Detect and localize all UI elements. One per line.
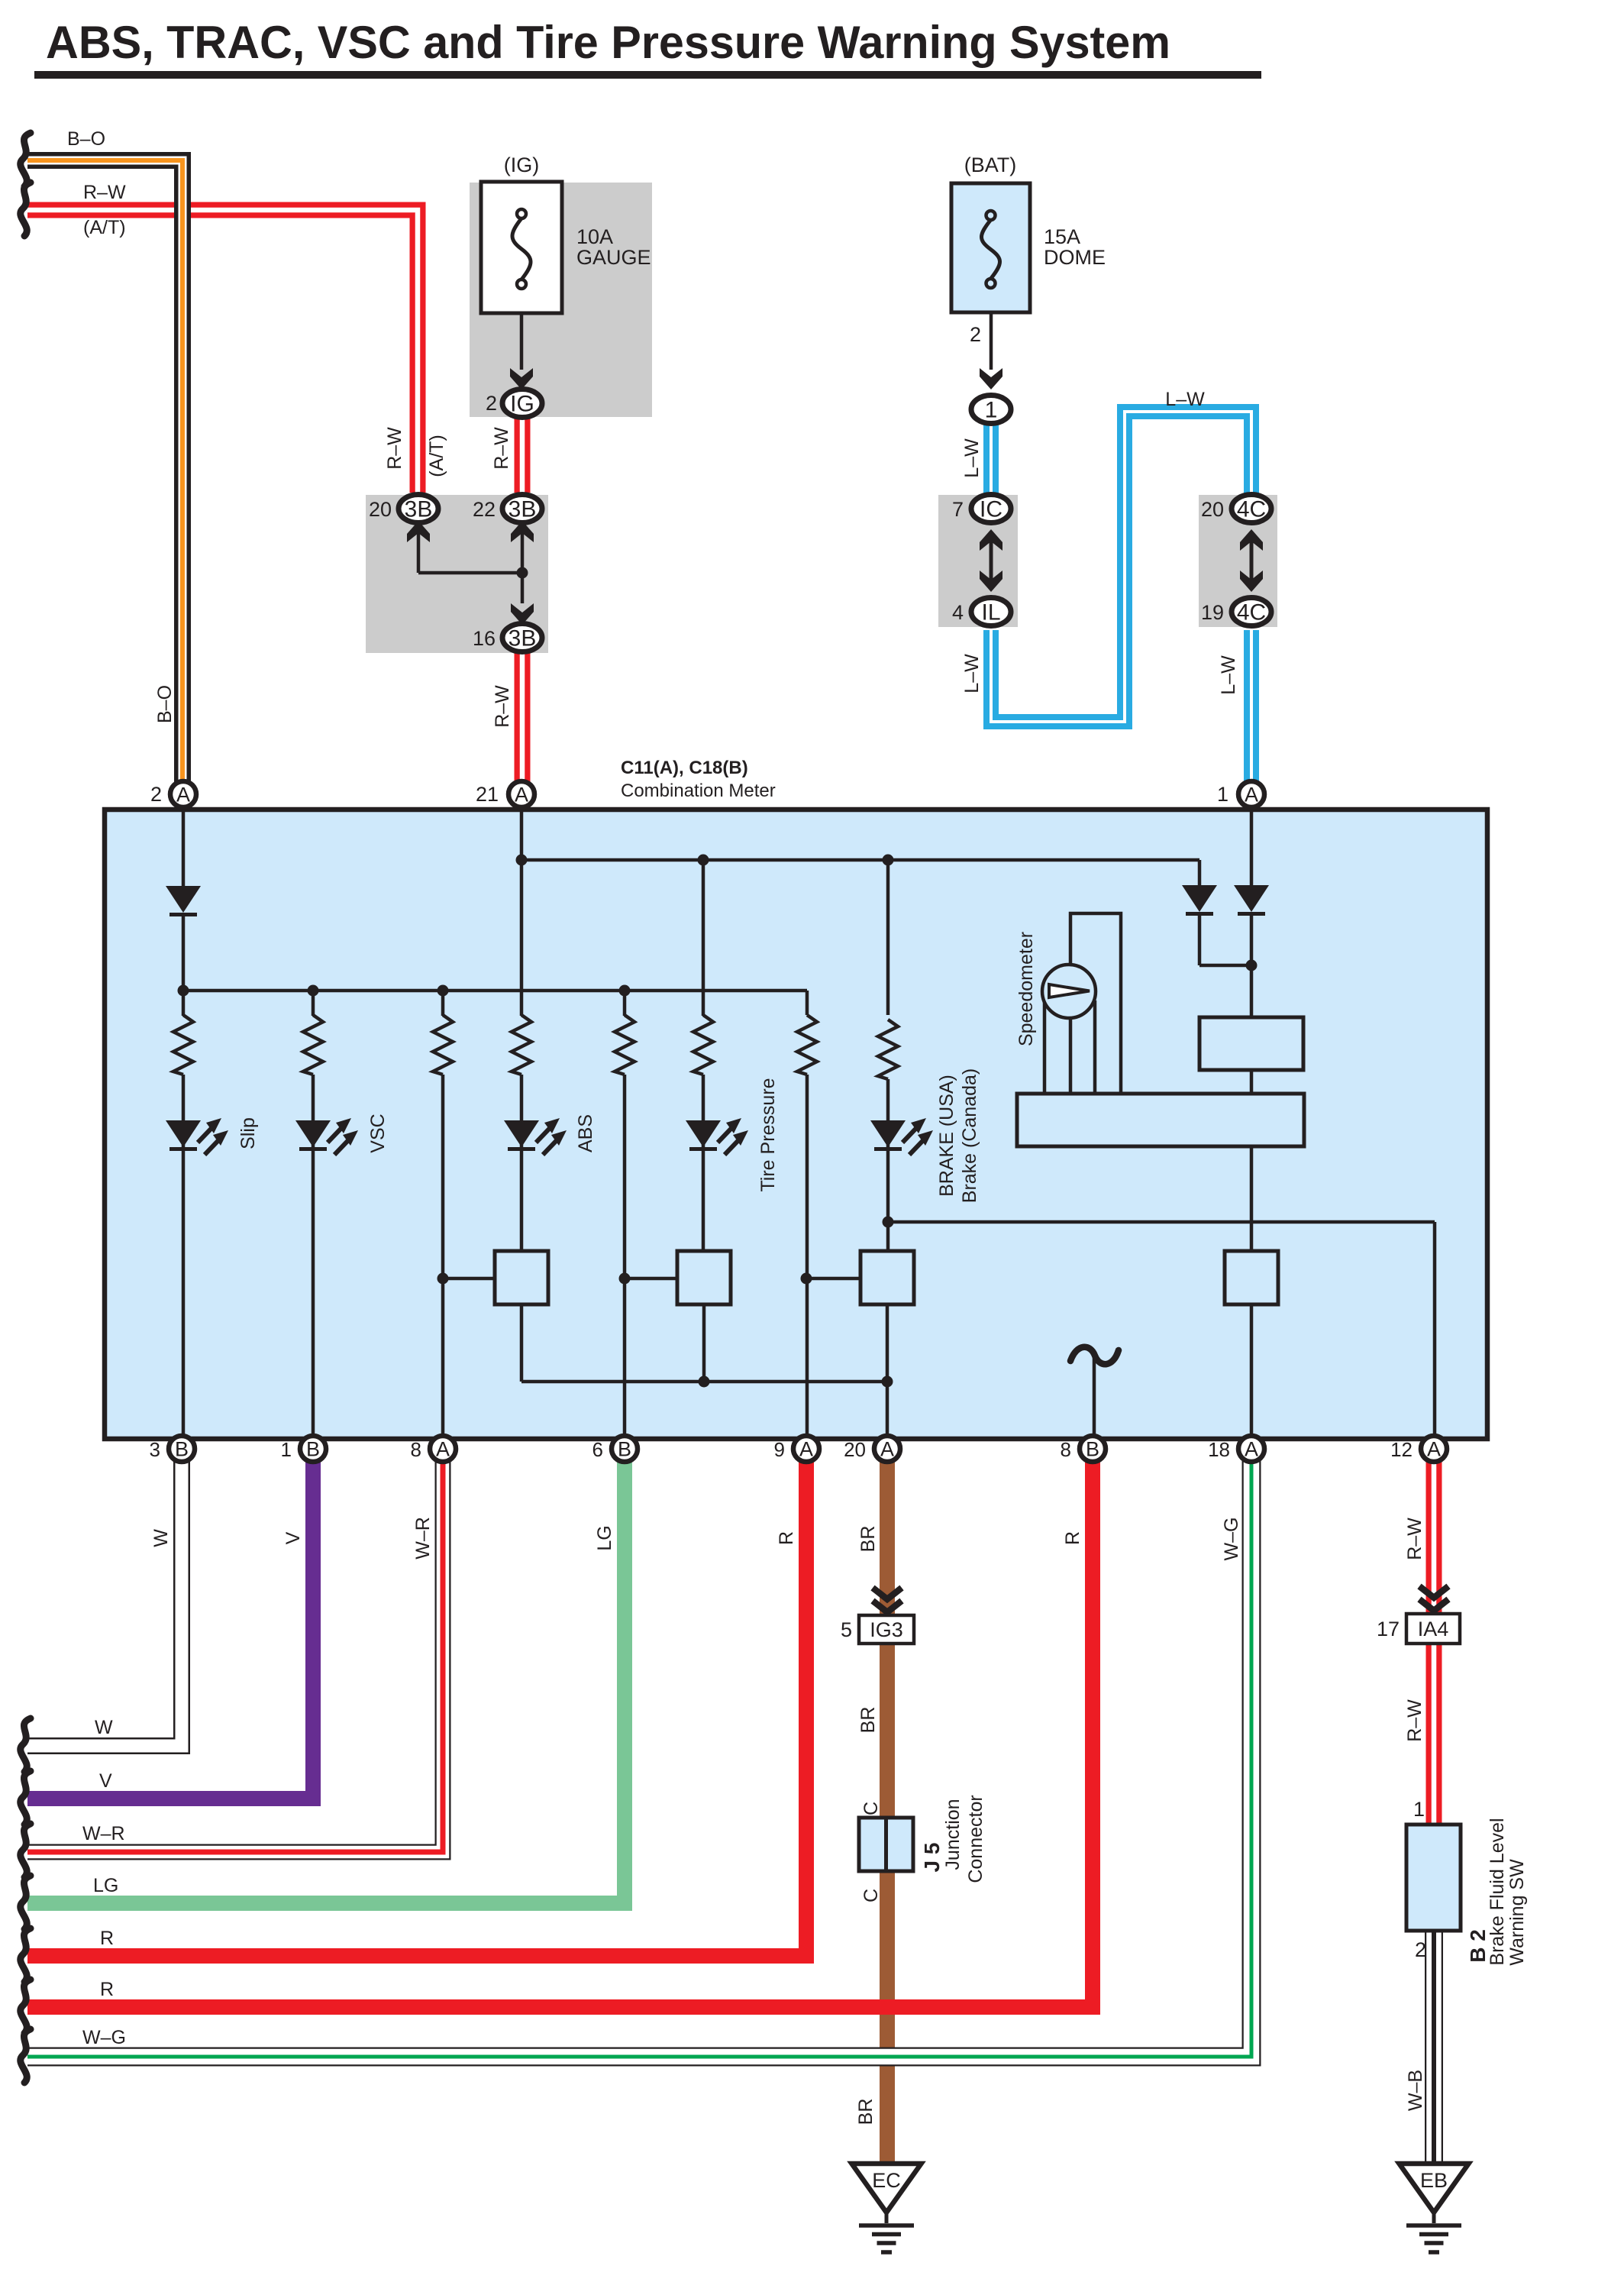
svg-text:Combination Meter: Combination Meter (621, 781, 776, 801)
svg-text:B: B (306, 1438, 320, 1461)
svg-text:J 5: J 5 (920, 1843, 944, 1873)
svg-text:BR: BR (857, 1526, 879, 1553)
svg-text:Brake Fluid Level: Brake Fluid Level (1487, 1818, 1508, 1965)
svg-text:ABS: ABS (575, 1114, 596, 1152)
svg-text:Slip: Slip (237, 1117, 259, 1149)
svg-text:R–W: R–W (1404, 1699, 1425, 1742)
svg-text:B: B (175, 1438, 189, 1461)
svg-text:BRAKE (USA): BRAKE (USA) (936, 1075, 957, 1197)
svg-text:L–W: L–W (1165, 389, 1205, 410)
svg-text:9: 9 (774, 1438, 785, 1461)
svg-text:3B: 3B (509, 497, 537, 522)
svg-text:B: B (1086, 1438, 1099, 1461)
svg-text:B–O: B–O (154, 685, 176, 723)
svg-text:4: 4 (952, 601, 964, 624)
svg-text:4C: 4C (1237, 497, 1266, 522)
svg-text:C: C (860, 1802, 882, 1815)
svg-text:R: R (100, 1928, 114, 1949)
svg-text:20: 20 (369, 498, 392, 521)
svg-text:A: A (799, 1438, 813, 1461)
svg-text:Junction: Junction (942, 1799, 964, 1870)
svg-text:Speedometer: Speedometer (1015, 932, 1037, 1046)
svg-text:(A/T): (A/T) (426, 435, 447, 477)
svg-text:1: 1 (1413, 1798, 1425, 1821)
svg-text:7: 7 (952, 498, 964, 521)
svg-text:17: 17 (1377, 1618, 1400, 1640)
svg-text:15A: 15A (1044, 225, 1080, 248)
svg-text:L–W: L–W (961, 654, 983, 693)
svg-text:3B: 3B (509, 626, 537, 651)
svg-text:8: 8 (411, 1438, 421, 1461)
svg-text:W: W (150, 1529, 172, 1547)
svg-text:IA4: IA4 (1418, 1618, 1449, 1640)
svg-text:R–W: R–W (492, 685, 513, 728)
svg-text:20: 20 (844, 1438, 866, 1461)
svg-text:(IG): (IG) (504, 154, 540, 176)
svg-text:L–W: L–W (961, 438, 983, 478)
svg-text:20: 20 (1201, 498, 1224, 521)
svg-text:A: A (436, 1438, 450, 1461)
svg-text:A: A (515, 784, 528, 806)
svg-text:R–W: R–W (491, 427, 512, 470)
svg-text:16: 16 (473, 627, 496, 650)
svg-text:10A: 10A (576, 225, 613, 248)
svg-text:ABS, TRAC, VSC and Tire Pressu: ABS, TRAC, VSC and Tire Pressure Warning… (46, 17, 1170, 68)
svg-text:V: V (283, 1531, 304, 1544)
svg-text:W–R: W–R (412, 1517, 434, 1560)
svg-text:W–G: W–G (82, 2027, 126, 2048)
svg-text:R–W: R–W (1404, 1518, 1425, 1560)
svg-text:2: 2 (970, 323, 981, 346)
svg-text:C: C (860, 1889, 882, 1902)
svg-text:A: A (176, 784, 190, 806)
svg-text:BR: BR (857, 1707, 879, 1734)
svg-text:W–R: W–R (82, 1823, 125, 1844)
svg-text:A: A (1245, 784, 1258, 806)
svg-text:V: V (99, 1770, 112, 1792)
svg-text:Tire Pressure: Tire Pressure (757, 1078, 779, 1191)
svg-text:R–W: R–W (83, 182, 126, 203)
svg-text:A: A (1427, 1438, 1441, 1461)
svg-text:(BAT): (BAT) (964, 154, 1017, 176)
svg-text:BR: BR (855, 2099, 877, 2125)
svg-text:GAUGE: GAUGE (576, 246, 651, 269)
svg-text:A: A (1245, 1438, 1258, 1461)
svg-text:3B: 3B (405, 497, 433, 522)
svg-text:2: 2 (1415, 1938, 1426, 1961)
svg-text:5: 5 (841, 1618, 852, 1641)
svg-text:IG3: IG3 (870, 1618, 903, 1641)
svg-text:2: 2 (486, 392, 497, 415)
svg-text:R–W: R–W (384, 427, 405, 470)
svg-text:R: R (100, 1979, 114, 2000)
svg-text:W: W (95, 1717, 113, 1738)
svg-text:VSC: VSC (367, 1114, 389, 1152)
svg-text:W–G: W–G (1221, 1518, 1242, 1561)
svg-text:21: 21 (476, 783, 499, 806)
svg-text:A: A (880, 1438, 894, 1461)
svg-text:L–W: L–W (1218, 655, 1239, 695)
svg-text:EC: EC (872, 2169, 901, 2192)
svg-text:IL: IL (981, 600, 1000, 625)
svg-text:1: 1 (281, 1438, 292, 1461)
svg-text:EB: EB (1420, 2169, 1448, 2192)
svg-text:Warning SW: Warning SW (1506, 1859, 1528, 1966)
svg-text:2: 2 (150, 783, 162, 806)
svg-text:4C: 4C (1237, 600, 1266, 625)
svg-text:18: 18 (1208, 1438, 1230, 1461)
svg-text:IG: IG (510, 392, 534, 417)
svg-text:W–B: W–B (1405, 2070, 1426, 2111)
svg-text:1: 1 (985, 398, 998, 423)
svg-text:1: 1 (1217, 783, 1228, 806)
svg-text:DOME: DOME (1044, 246, 1106, 269)
svg-text:B: B (618, 1438, 631, 1461)
svg-text:R: R (776, 1531, 797, 1545)
svg-text:LG: LG (93, 1875, 118, 1896)
svg-text:Brake (Canada): Brake (Canada) (959, 1068, 980, 1203)
svg-text:19: 19 (1201, 601, 1224, 624)
svg-text:(A/T): (A/T) (83, 217, 126, 238)
svg-text:8: 8 (1061, 1438, 1071, 1461)
svg-text:12: 12 (1390, 1438, 1413, 1461)
svg-text:R: R (1062, 1531, 1083, 1545)
svg-text:LG: LG (594, 1525, 615, 1550)
svg-text:IC: IC (980, 497, 1002, 522)
svg-text:3: 3 (150, 1438, 160, 1461)
svg-text:Connector: Connector (965, 1795, 986, 1883)
svg-text:22: 22 (473, 498, 496, 521)
svg-text:6: 6 (592, 1438, 603, 1461)
svg-text:C11(A), C18(B): C11(A), C18(B) (621, 758, 748, 778)
svg-text:B–O: B–O (67, 128, 105, 150)
